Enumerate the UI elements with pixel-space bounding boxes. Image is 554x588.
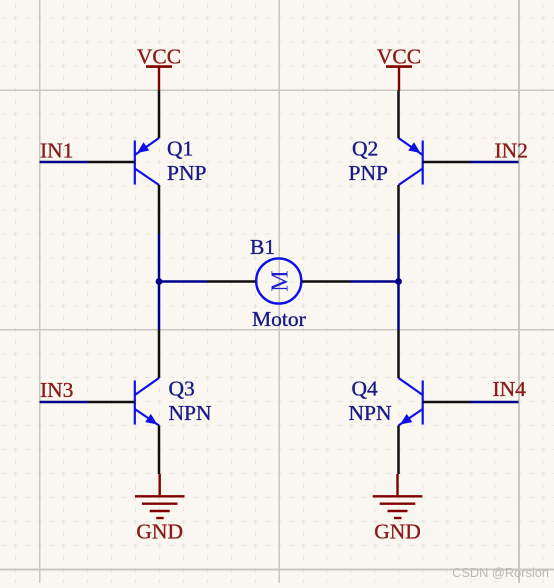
svg-text:GND: GND bbox=[374, 520, 421, 544]
ground GND (left) bbox=[135, 474, 185, 544]
power port VCC (left) bbox=[137, 45, 181, 91]
transistor Q1 (PNP, top-left) bbox=[88, 91, 159, 235]
wire IN3 to Q3 base bbox=[40, 401, 88, 404]
svg-text:IN4: IN4 bbox=[493, 377, 527, 401]
svg-text:Q2: Q2 bbox=[352, 137, 378, 161]
wire IN2 to Q2 base bbox=[470, 161, 519, 164]
wire Q1 collector to Q3 collector (left vertical) bbox=[158, 234, 161, 330]
svg-text:B1: B1 bbox=[250, 235, 275, 259]
junction right node bbox=[395, 278, 402, 285]
svg-text:IN3: IN3 bbox=[40, 378, 73, 402]
transistor Q2 (PNP, top-right) bbox=[399, 91, 471, 235]
svg-text:IN2: IN2 bbox=[495, 139, 528, 163]
svg-text:Q4: Q4 bbox=[352, 377, 379, 401]
svg-text:VCC: VCC bbox=[377, 45, 421, 69]
motor B1 bbox=[207, 258, 351, 303]
ground GND (right) bbox=[373, 474, 423, 544]
wire left node to motor bbox=[159, 280, 207, 283]
wire IN4 to Q4 base bbox=[470, 401, 519, 404]
transistor Q3 (NPN, bottom-left) bbox=[88, 330, 159, 474]
svg-text:IN1: IN1 bbox=[40, 139, 73, 163]
svg-text:Q1: Q1 bbox=[167, 137, 193, 161]
svg-text:GND: GND bbox=[136, 520, 183, 544]
wire IN1 to Q1 base bbox=[40, 161, 88, 164]
transistor Q4 (NPN, bottom-right) bbox=[399, 330, 471, 474]
svg-text:Q3: Q3 bbox=[169, 377, 195, 401]
junction left node bbox=[156, 278, 163, 285]
svg-text:M: M bbox=[266, 270, 293, 292]
svg-text:NPN: NPN bbox=[349, 401, 392, 425]
svg-text:NPN: NPN bbox=[169, 401, 212, 425]
svg-text:CSDN @Rorsion: CSDN @Rorsion bbox=[452, 565, 549, 580]
svg-text:PNP: PNP bbox=[167, 161, 206, 185]
wire motor to right node bbox=[351, 280, 399, 283]
power port VCC (right) bbox=[377, 45, 421, 91]
svg-text:VCC: VCC bbox=[137, 45, 181, 69]
svg-text:Motor: Motor bbox=[252, 307, 306, 331]
svg-text:PNP: PNP bbox=[349, 161, 388, 185]
wire Q2 collector to Q4 collector (right vertical) bbox=[397, 234, 400, 330]
